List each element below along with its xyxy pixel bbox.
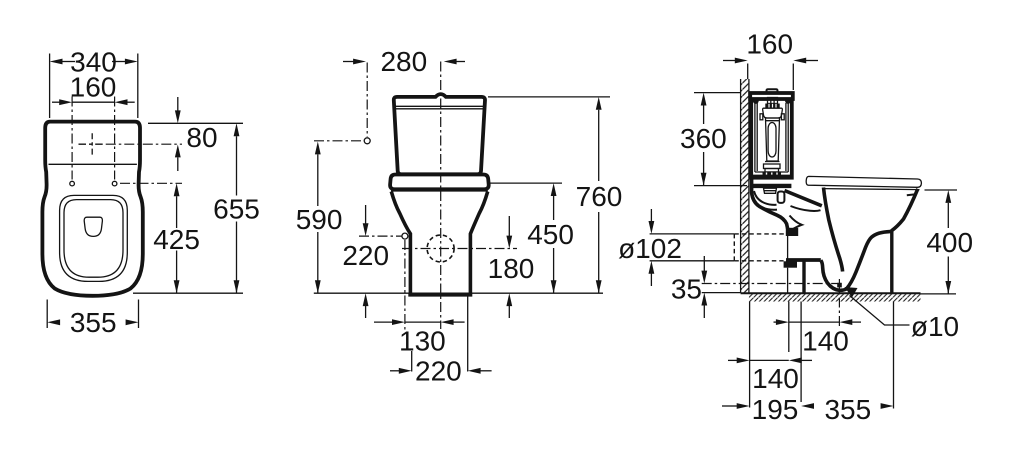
dim 220 left (365, 205, 367, 224)
supply centreline vertical (366, 63, 368, 138)
supply centreline horizontal (314, 140, 364, 142)
dim 130 (374, 321, 393, 323)
wall edges (740, 79, 742, 293)
svg-text:360: 360 (680, 123, 727, 154)
side supply centreline down (404, 240, 406, 330)
seat band (front view) (390, 175, 489, 190)
rim lower curve to spigot (790, 216, 802, 229)
drain dot (837, 283, 842, 288)
dim 355 (46, 300, 48, 329)
back thin vertical lower (787, 268, 789, 293)
rim top edge (785, 191, 822, 206)
trap centreline (35) (702, 283, 844, 285)
seat ring outer (60, 195, 128, 281)
svg-text:220: 220 (415, 356, 462, 387)
side supply marker (402, 233, 408, 239)
dim 180 (508, 216, 510, 237)
160 centreline right (114, 97, 116, 180)
trap bottom curve (821, 260, 847, 290)
dim 195 (722, 405, 738, 407)
top extension line (front view) (488, 96, 610, 98)
svg-text:160: 160 (746, 29, 793, 60)
svg-text:590: 590 (296, 204, 343, 235)
flush valve body (765, 118, 780, 161)
svg-text:220: 220 (342, 240, 389, 271)
dim 80 (177, 97, 179, 111)
spud ring (778, 192, 785, 203)
bowl inner front line (847, 232, 892, 289)
cistern lid (side) (750, 93, 793, 99)
lower spigot (784, 261, 797, 267)
upper spigot (786, 228, 798, 236)
svg-text:355: 355 (824, 394, 871, 425)
svg-text:140: 140 (752, 363, 799, 394)
svg-text:80: 80 (186, 122, 217, 153)
bottom extension line (133, 292, 243, 294)
svg-text:425: 425 (153, 224, 200, 255)
dim 280 (343, 61, 354, 63)
svg-text:280: 280 (380, 46, 427, 77)
centre mark cross (79, 143, 106, 145)
cistern bottom edge (top view) (49, 163, 137, 165)
bowl outer front curve (892, 189, 918, 231)
holes centreline (120, 182, 182, 184)
svg-text:180: 180 (488, 253, 535, 284)
dim 140 first (774, 321, 783, 323)
svg-text:ø10: ø10 (911, 311, 959, 342)
bowl inner wall descending (824, 188, 843, 272)
dim 590 (315, 142, 321, 155)
drain wedge (845, 287, 858, 298)
fixing hole right (112, 181, 117, 186)
flush valve window (768, 123, 776, 158)
back thin vertical upper (787, 236, 789, 259)
flush elbow inner (752, 193, 777, 210)
cistern lid seam (394, 105, 484, 107)
below-floor extension lines (749, 302, 751, 408)
cistern bottom (side) (751, 175, 792, 178)
floor extension right (921, 293, 957, 295)
drain centreline vertical (838, 279, 840, 328)
step bar (786, 258, 821, 262)
top extension line (148, 122, 243, 124)
svg-text:195: 195 (752, 394, 799, 425)
floor line (741, 292, 921, 294)
bottom extension line (front view) (314, 292, 603, 294)
pan back upper profile (752, 179, 788, 229)
bowl and pedestal (front view) (391, 192, 487, 294)
foot front vertical (890, 230, 893, 293)
svg-text:140: 140 (802, 326, 849, 357)
svg-text:160: 160 (70, 72, 117, 103)
floor hatch (749, 293, 921, 301)
centreline to 80 dim (106, 143, 182, 145)
pan outer contour (top view) (42, 122, 142, 296)
flush button (side) (767, 89, 778, 93)
160 centreline left (71, 97, 73, 180)
dim 355 (side) (801, 403, 814, 409)
svg-text:655: 655 (213, 194, 260, 225)
dim 360 (694, 92, 741, 94)
dim 400 (925, 189, 958, 191)
cistern inner walls (754, 102, 756, 172)
seat band bottom thick edge (391, 188, 488, 192)
seat lid (side) (806, 176, 921, 187)
flush elbow outer (754, 191, 777, 205)
dim 655 (234, 123, 240, 136)
outlet dashed circle (427, 235, 454, 262)
main vertical centreline (440, 62, 442, 330)
cistern (front view) (394, 94, 485, 174)
dim o10 leader (850, 296, 910, 326)
dim 425 (174, 183, 180, 196)
rim bottom edge (791, 206, 821, 211)
svg-text:450: 450 (527, 219, 574, 250)
dim 140 second (728, 359, 738, 361)
fixing hole left (70, 181, 75, 186)
flush valve cap (765, 104, 779, 109)
water spot (84, 217, 102, 236)
floor extension left (702, 292, 740, 294)
side supply centreline (359, 235, 402, 237)
dim 220 bottom (411, 351, 413, 372)
outlet horizontal centreline (402, 248, 517, 250)
flush valve tabs (760, 114, 763, 120)
svg-text:760: 760 (576, 181, 623, 212)
seat line (823, 189, 920, 190)
dim 340 (49, 54, 51, 119)
supply point marker (364, 138, 370, 144)
seat buffer stub (908, 194, 916, 211)
flush valve shoulder (763, 108, 783, 118)
seat extension line (490, 182, 562, 184)
flush valve base stack (765, 161, 780, 163)
lid corner fixings (753, 98, 759, 104)
pedestal bottom (408, 293, 472, 297)
svg-text:ø102: ø102 (618, 233, 682, 264)
svg-text:130: 130 (399, 326, 446, 357)
pan shelf (side) (751, 184, 791, 188)
svg-text:355: 355 (70, 307, 117, 338)
svg-text:35: 35 (671, 274, 702, 305)
cistern (side view) (751, 99, 792, 178)
dim 450 (551, 183, 557, 196)
seat ring inner (64, 200, 123, 278)
flush valve nut (764, 188, 777, 193)
wall hatch (741, 79, 749, 293)
back foot vertical (802, 261, 805, 293)
flush valve neck (768, 98, 778, 104)
svg-text:400: 400 (926, 227, 973, 258)
dim 760 (596, 97, 602, 110)
